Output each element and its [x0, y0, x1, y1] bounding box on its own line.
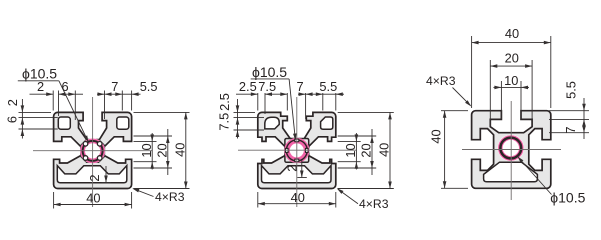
leader to center hole profile 1: [59, 81, 88, 141]
svg-text:2: 2: [87, 174, 102, 181]
centerlines profile 1: [92, 97, 94, 207]
svg-text:40: 40: [86, 190, 100, 205]
svg-text:2: 2: [285, 165, 300, 172]
profile 2 center hole: [284, 138, 309, 163]
svg-text:2.5: 2.5: [239, 79, 257, 94]
svg-text:40: 40: [291, 190, 305, 205]
svg-text:40: 40: [429, 129, 444, 143]
svg-text:40: 40: [172, 143, 187, 157]
svg-text:20: 20: [154, 143, 169, 157]
svg-text:20: 20: [359, 143, 374, 157]
centerlines profile 3: [510, 101, 512, 200]
svg-text:6: 6: [5, 116, 20, 123]
svg-text:ϕ10.5: ϕ10.5: [550, 190, 585, 206]
svg-text:2: 2: [37, 79, 44, 94]
profile 2 body: [258, 112, 336, 188]
leader to center hole profile 2: [289, 79, 295, 139]
svg-text:10: 10: [139, 143, 154, 157]
svg-text:7: 7: [111, 79, 118, 94]
profile 1 core block: [81, 140, 104, 163]
profile 1 center hole: [80, 138, 105, 163]
svg-text:ϕ10.5: ϕ10.5: [252, 64, 287, 80]
profile 3 center hole: [498, 135, 524, 161]
svg-text:4×R3: 4×R3: [426, 74, 456, 88]
svg-text:7: 7: [296, 79, 303, 94]
svg-text:40: 40: [377, 143, 392, 157]
profile 3 body: [472, 111, 551, 189]
profile 2 core block: [285, 139, 309, 163]
centerlines profile 2: [296, 97, 298, 207]
svg-text:10: 10: [504, 73, 518, 88]
profile 1 body: [54, 112, 132, 188]
svg-text:6: 6: [61, 79, 68, 94]
svg-text:40: 40: [505, 26, 519, 41]
svg-text:2: 2: [5, 99, 20, 106]
svg-text:5.5: 5.5: [319, 79, 337, 94]
svg-text:7.5: 7.5: [217, 113, 232, 131]
svg-text:5.5: 5.5: [564, 81, 579, 99]
svg-text:20: 20: [505, 51, 519, 66]
svg-text:5.5: 5.5: [140, 79, 158, 94]
svg-text:2.5: 2.5: [217, 93, 232, 111]
svg-text:7.5: 7.5: [258, 79, 276, 94]
svg-text:4×R3: 4×R3: [155, 190, 185, 204]
svg-text:4×R3: 4×R3: [359, 197, 389, 211]
